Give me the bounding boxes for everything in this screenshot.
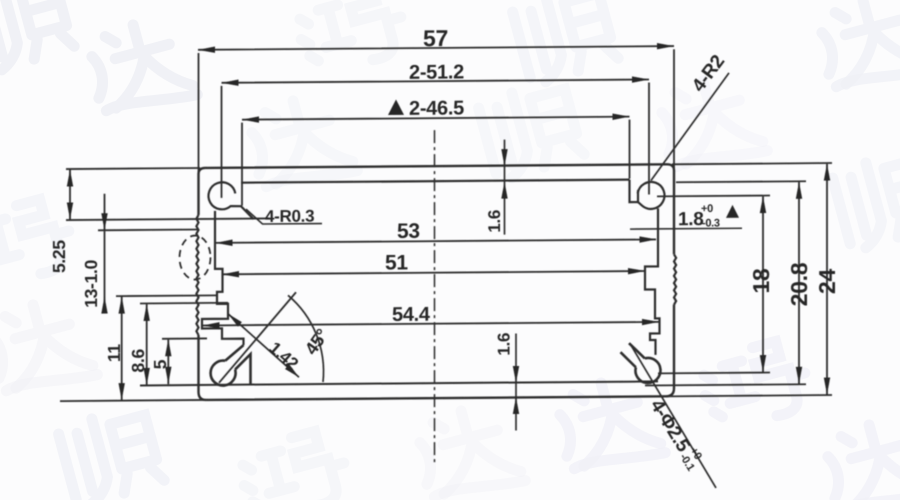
dimension 20.8 (645, 181, 806, 385)
dimension 53 (216, 239, 656, 242)
45deg slot axis line (219, 292, 296, 383)
svg-text:+0: +0 (701, 203, 713, 215)
svg-text:1.8: 1.8 (678, 209, 704, 230)
svg-text:1.6: 1.6 (495, 333, 514, 356)
dimension 51 (223, 271, 645, 274)
top-left screw boss (208, 182, 253, 219)
leader 4-R0.3 (246, 209, 322, 225)
bottom-right screw boss with 45deg slot (621, 343, 661, 383)
left wall inner profile (202, 211, 244, 346)
svg-text:8.6: 8.6 (128, 348, 148, 372)
detail marker dashed ellipse on left wall (180, 235, 211, 279)
svg-text:4-R2: 4-R2 (688, 51, 729, 96)
dimension 57 (198, 46, 674, 174)
dimension 8.6 (140, 303, 228, 386)
leader 4-dia2.5 (630, 343, 716, 489)
cavity floor line (140, 381, 658, 385)
leader 4-R2 (651, 73, 729, 181)
right wall knurled section (674, 254, 676, 304)
svg-text:13-1.0: 13-1.0 (81, 259, 101, 308)
dimension 2-51.2 (222, 79, 650, 197)
dimension 11 (121, 296, 123, 401)
left wall knurled section (196, 215, 198, 335)
svg-text:18: 18 (748, 268, 774, 294)
vertical centerline dash-dot (434, 130, 436, 466)
top-right corner notch (630, 180, 639, 203)
right wall inner profile (645, 208, 660, 355)
top-right screw boss (638, 182, 665, 209)
svg-text:11: 11 (104, 344, 124, 363)
svg-text:1.42: 1.42 (265, 338, 301, 373)
leader 1.8 tolerance (630, 227, 742, 230)
profile outer wall right+bottom (199, 305, 675, 400)
svg-text:51: 51 (385, 251, 408, 274)
dimension 54.4 (203, 322, 659, 326)
dimension 1.42 diagonal (228, 313, 299, 378)
svg-text:24: 24 (814, 268, 840, 294)
45 degree arc (288, 295, 324, 382)
svg-text:2-51.2: 2-51.2 (409, 61, 464, 83)
svg-text:4-Φ2.5: 4-Φ2.5 (646, 396, 694, 456)
svg-text:-0.3: -0.3 (702, 217, 720, 229)
dimension 5 (162, 338, 207, 384)
dimension 18 (657, 196, 770, 374)
dimension 13-1.0 (98, 193, 218, 309)
svg-text:54.4: 54.4 (392, 304, 431, 326)
dimension 5.25 (66, 167, 270, 220)
label 4-dia2.5 tolerance (646, 394, 707, 473)
svg-text:2-46.5: 2-46.5 (409, 97, 464, 119)
svg-text:57: 57 (423, 25, 448, 51)
dimension 1.6 top wall (504, 140, 506, 235)
svg-text:5: 5 (150, 359, 170, 369)
svg-text:5.25: 5.25 (49, 240, 69, 274)
dimension 1.6 bottom wall (515, 334, 517, 431)
svg-text:53: 53 (397, 220, 420, 243)
profile outer wall top+sides (199, 164, 675, 258)
dimension 24 (60, 163, 832, 401)
svg-text:20.8: 20.8 (786, 262, 812, 306)
svg-text:1.6: 1.6 (485, 210, 504, 233)
top wall inner line (241, 180, 630, 183)
svg-text:45°: 45° (301, 325, 333, 358)
svg-text:4-R0.3: 4-R0.3 (265, 207, 314, 226)
label 2-46.5 with datum triangle (388, 99, 404, 115)
bottom-left screw boss with 45deg slot (211, 345, 251, 386)
dimension 2-46.5 (242, 117, 630, 206)
